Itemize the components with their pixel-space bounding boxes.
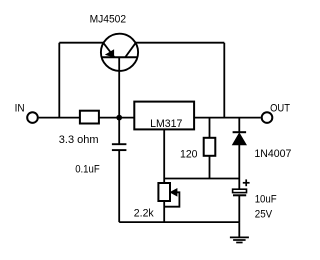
terminal OUT [262, 112, 273, 123]
svg-text:OUT: OUT [270, 103, 290, 115]
regulator U1 LM317 [134, 102, 194, 130]
potentiometer R3 2.2k body [158, 183, 170, 201]
transistor emitter diagonal [103, 43, 114, 57]
node A junction dot [116, 115, 122, 121]
wire top left to transistor emitter [59, 42, 103, 44]
svg-text:3.3 ohm: 3.3 ohm [59, 134, 99, 146]
wire diode top lead [238, 118, 240, 133]
transistor base bar [102, 56, 137, 58]
capacitor C2 plus sign [243, 179, 250, 186]
wire ground stem [238, 222, 240, 237]
wire pot top lead [163, 179, 165, 184]
resistor R1 3.3 ohm [80, 111, 99, 124]
diode D1 triangle [233, 133, 247, 145]
wire 10uF lower lead [238, 195, 240, 222]
capacitor C1 0.1uF top plate [112, 143, 127, 145]
resistor R2 120 [204, 138, 216, 156]
wire output rail [194, 117, 260, 119]
wire LM317 ADJ lead [163, 130, 165, 179]
transistor collector diagonal [125, 43, 135, 57]
ground [230, 237, 249, 242]
capacitor C2 negative plate [233, 194, 246, 196]
wire left vertical to top [58, 43, 60, 118]
svg-text:120: 120 [180, 148, 198, 160]
transistor Q1 MJ4502 body [101, 34, 138, 71]
capacitor C2 10uF positive plate [233, 189, 247, 192]
transistor emitter arrow [106, 50, 114, 57]
svg-text:IN: IN [15, 103, 25, 115]
capacitor C1 bottom plate [112, 149, 127, 151]
wire pot wiper loop [164, 192, 179, 206]
wire 120 bottom lead [209, 156, 211, 179]
svg-text:10uF: 10uF [255, 193, 277, 205]
wire 120 top lead [209, 118, 211, 138]
wire bottom ground rail [119, 221, 239, 223]
svg-text:LM317: LM317 [150, 118, 182, 130]
svg-text:25V: 25V [255, 208, 273, 220]
diode D1 1N4007 cathode bar [233, 131, 247, 133]
wire diode anode down to capacitor [238, 145, 240, 189]
wire right vertical to output rail [223, 43, 225, 118]
wire transistor collector to top right [136, 42, 225, 44]
wire input rail [39, 117, 135, 119]
svg-text:2.2k: 2.2k [134, 208, 154, 220]
wire adjust rail [164, 178, 239, 180]
wire 0.1uF lower lead [118, 150, 120, 222]
wire transistor base down to node A [118, 57, 120, 144]
svg-text:0.1uF: 0.1uF [75, 164, 100, 176]
terminal IN [27, 112, 38, 123]
svg-text:1N4007: 1N4007 [254, 148, 291, 160]
wire pot bottom lead [163, 201, 165, 222]
svg-text:MJ4502: MJ4502 [90, 14, 127, 26]
potentiometer wiper arrow [170, 189, 177, 196]
